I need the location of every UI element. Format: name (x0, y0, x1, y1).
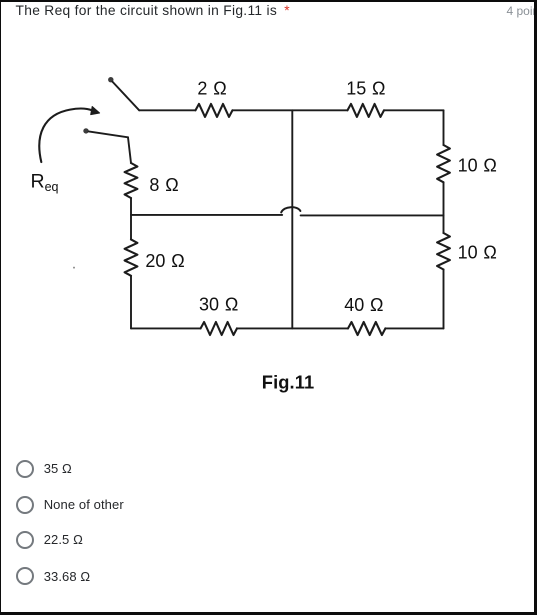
wire into 8-ohm (128, 137, 131, 163)
wire hop over vertical wire (281, 207, 300, 212)
wire top-left to 2-ohm (139, 109, 195, 111)
svg-text:Req: Req (31, 171, 59, 195)
bottom wire left segment (131, 327, 201, 329)
wire left side between 8-ohm and 20-ohm (130, 198, 132, 239)
wire 2-ohm to 15-ohm (top) (233, 109, 348, 111)
switch blade to 8-ohm branch (89, 131, 128, 137)
switch pole dot (top) (108, 77, 113, 82)
svg-text:15 Ω: 15 Ω (346, 78, 385, 98)
stray period mark (73, 267, 75, 269)
wire right side lower segment (443, 270, 445, 329)
wire left side lower segment (130, 276, 132, 329)
bottom wire right segment (385, 327, 443, 329)
wire right side middle segment (443, 182, 445, 233)
svg-text:40 Ω: 40 Ω (344, 295, 383, 315)
resistor 40 ohm (348, 322, 385, 335)
resistor 2 ohm (196, 104, 233, 117)
middle horizontal wire left part (131, 214, 282, 216)
option D: 33.68 ohm (16, 567, 416, 585)
option A: 35 ohm (16, 460, 416, 478)
svg-text:Fig.11: Fig.11 (262, 371, 314, 392)
wire 15-ohm to top-right corner (384, 109, 444, 111)
svg-text:10 Ω: 10 Ω (458, 155, 497, 175)
points label (507, 4, 537, 18)
middle horizontal wire right part (301, 214, 444, 216)
switch throw dot (lower) (83, 128, 88, 133)
resistor 20 ohm (125, 239, 138, 275)
resistor 10 ohm (lower right) (437, 233, 450, 270)
middle vertical wire (291, 110, 293, 328)
svg-text:20 Ω: 20 Ω (145, 251, 184, 271)
wire right side upper segment (443, 110, 445, 145)
Req arrow (curved) (39, 109, 92, 162)
resistor 8 ohm (125, 163, 138, 198)
Req arrowhead (91, 107, 100, 115)
resistor 30 ohm (201, 322, 237, 335)
option C: 22.5 ohm (16, 531, 416, 549)
resistor 10 ohm (upper right) (437, 145, 450, 182)
svg-text:10 Ω: 10 Ω (458, 243, 497, 263)
resistor 15 ohm (348, 104, 385, 117)
switch blade (top, open) (112, 82, 139, 111)
svg-text:2 Ω: 2 Ω (197, 78, 226, 98)
title text (16, 3, 290, 18)
svg-text:30 Ω: 30 Ω (199, 294, 238, 314)
bottom wire middle segment (237, 327, 348, 329)
option B: None of other (16, 496, 416, 514)
svg-text:8 Ω: 8 Ω (149, 175, 178, 195)
